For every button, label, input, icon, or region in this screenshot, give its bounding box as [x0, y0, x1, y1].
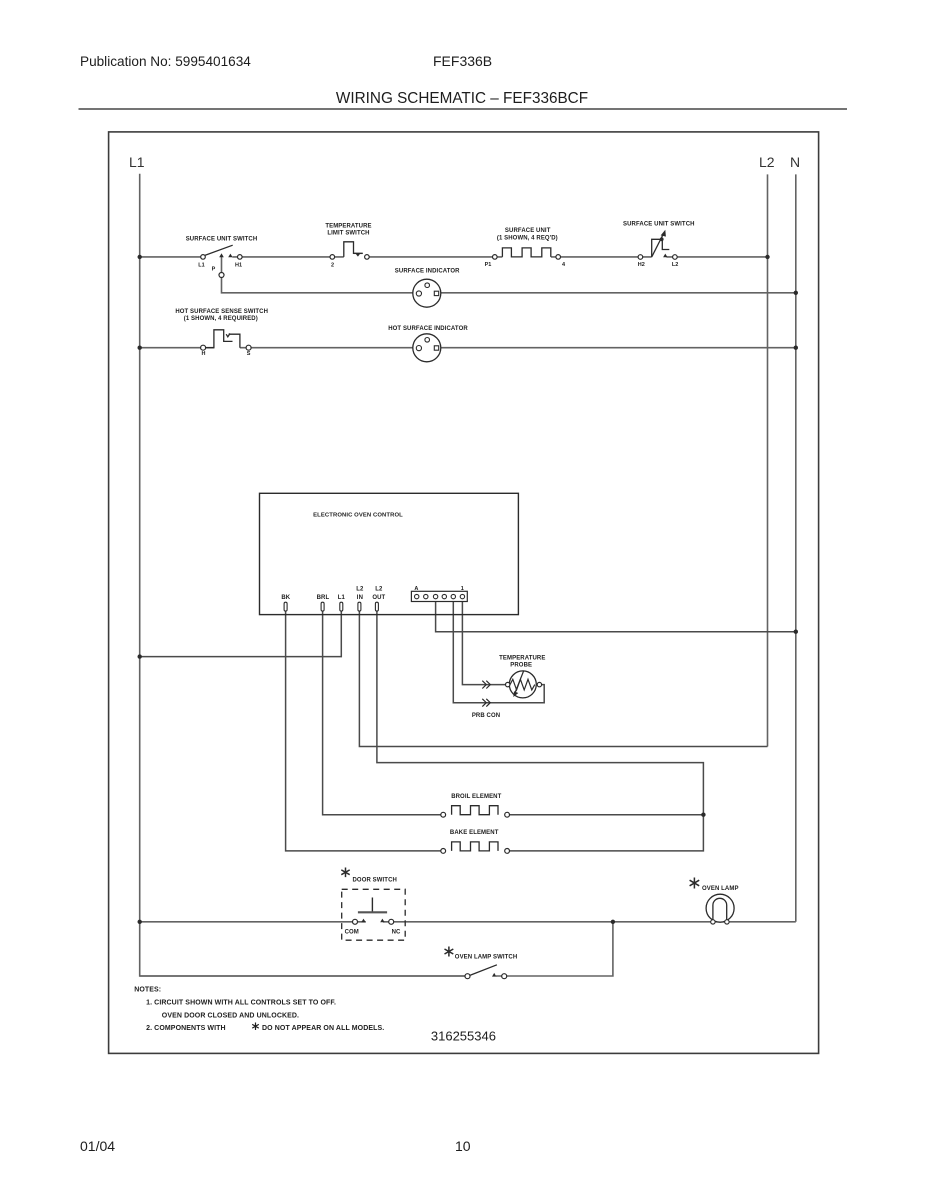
svg-text:L2: L2 [356, 587, 364, 593]
hot surface sense switch contact v [226, 333, 230, 336]
terminal P [219, 273, 224, 278]
row1 wire H1 to limit switch [232, 256, 343, 258]
svg-text:P: P [212, 267, 216, 273]
wire connector pin3 to N rail [436, 599, 796, 632]
svg-text:2: 2 [331, 262, 334, 268]
terminal limit switch right [365, 255, 370, 260]
electronic oven control box U1 [260, 493, 519, 614]
EOC terminal slot L1 [340, 602, 343, 611]
wire connector pin6 to probe [462, 599, 507, 685]
terminal NC [389, 919, 394, 924]
junction L1 EOC [138, 654, 142, 658]
L2 rail vertical wire [767, 174, 769, 746]
terminal H1 [238, 255, 243, 260]
wire EOC L2 OUT to elements [377, 611, 704, 815]
terminal L1 [201, 255, 206, 260]
EOC connector J1 [411, 591, 467, 601]
broil element BE1 [452, 806, 498, 815]
svg-text:BK: BK [281, 595, 290, 601]
svg-text:HOT SURFACE SENSE SWITCH: HOT SURFACE SENSE SWITCH [175, 309, 268, 315]
terminal probe right [537, 682, 541, 686]
chevron SW2 [663, 254, 667, 258]
junction N indicator [794, 291, 798, 295]
terminal P1 [493, 255, 498, 260]
connector pin 3 [433, 594, 437, 598]
chevron door COM [361, 919, 365, 923]
svg-text:DO NOT APPEAR ON ALL MODELS.: DO NOT APPEAR ON ALL MODELS. [262, 1025, 384, 1032]
door switch dashed box [342, 889, 406, 940]
connector pin 2 [424, 594, 428, 598]
temperature probe arrow [515, 671, 524, 693]
svg-text:BAKE ELEMENT: BAKE ELEMENT [450, 830, 499, 836]
svg-text:OUT: OUT [372, 595, 385, 601]
terminal probe left [506, 682, 510, 686]
svg-text:L2: L2 [672, 262, 678, 268]
EOC terminal slot L2 IN [358, 602, 361, 611]
surface unit switch SW1 blade [205, 245, 233, 255]
svg-text:NOTES:: NOTES: [134, 987, 161, 994]
terminal bake right [505, 849, 510, 854]
svg-text:BRL: BRL [317, 595, 330, 601]
header rule [79, 108, 848, 110]
row1 wire switch2 to L2 rail [667, 256, 768, 258]
svg-text:L2: L2 [759, 154, 775, 170]
door switch rail wire left [140, 921, 366, 923]
wire broil element to junction [507, 814, 703, 816]
oven lamp filament loop [713, 898, 727, 922]
terminal L2 [673, 255, 678, 260]
terminal H [201, 345, 206, 350]
svg-text:L1: L1 [198, 263, 204, 269]
chevron P [219, 253, 224, 257]
svg-text:H2: H2 [638, 262, 645, 268]
junction L2 row1 [765, 255, 769, 259]
wire connector pin5 to probe return [453, 599, 544, 703]
wire EOC L1 to L1 rail [140, 611, 342, 657]
oven lamp DS3 body [706, 894, 734, 922]
junction L1 row1 [138, 255, 142, 259]
svg-text:OVEN LAMP SWITCH: OVEN LAMP SWITCH [455, 955, 518, 961]
svg-text:SURFACE INDICATOR: SURFACE INDICATOR [395, 269, 460, 275]
temperature limit switch bump [344, 242, 363, 257]
surface indicator branch wire [222, 257, 796, 293]
svg-text:ELECTRONIC OVEN CONTROL: ELECTRONIC OVEN CONTROL [313, 513, 403, 519]
asterisk oven lamp [690, 878, 700, 889]
connector pin 1 [415, 594, 419, 598]
temperature probe resistor zigzag [510, 679, 535, 690]
svg-text:10: 10 [455, 1138, 471, 1154]
svg-text:COM: COM [345, 930, 359, 936]
oven lamp switch branch wire right [496, 922, 613, 976]
svg-text:L1: L1 [338, 595, 346, 601]
svg-text:01/04: 01/04 [80, 1138, 115, 1154]
connector pin 6 [460, 594, 464, 598]
chevron lamp switch [492, 973, 496, 977]
svg-text:PROBE: PROBE [510, 663, 532, 669]
surface unit switch SW2 pivot dot [660, 237, 664, 241]
surface unit switch SW2 blade [652, 234, 664, 258]
svg-text:L1: L1 [129, 154, 145, 170]
svg-text:2. COMPONENTS WITH: 2. COMPONENTS WITH [146, 1025, 226, 1032]
surface unit switch SW2 frame [652, 239, 670, 257]
junction L1 door rail [138, 920, 142, 924]
EOC terminal slot BRL [321, 602, 324, 611]
wire bake element to junction [507, 815, 703, 851]
junction N pin3 [794, 630, 798, 634]
terminal H2 [638, 255, 643, 260]
svg-text:NC: NC [392, 930, 401, 936]
terminal circles [201, 255, 678, 979]
hot surface rail wire right [240, 347, 796, 349]
svg-text:HOT SURFACE INDICATOR: HOT SURFACE INDICATOR [388, 326, 468, 332]
svg-text:LIMIT SWITCH: LIMIT SWITCH [327, 231, 369, 237]
EOC terminal slot BK [284, 602, 287, 611]
terminal bake left [441, 849, 446, 854]
svg-text:A: A [414, 586, 418, 592]
svg-text:BROIL ELEMENT: BROIL ELEMENT [451, 794, 501, 800]
oven lamp terminal left [711, 920, 715, 924]
chevron contacts [219, 253, 667, 976]
wire EOC BRL to broil element [323, 611, 444, 815]
wire EOC L2 IN to L2 rail [359, 611, 767, 747]
hot surface sense switch bump [205, 330, 232, 348]
schematic border frame [109, 132, 819, 1054]
terminal lamp switch right [502, 974, 507, 979]
L1 rail vertical wire [140, 174, 467, 976]
probe connector chevron top [482, 681, 490, 689]
surface unit switch SW2 blade arrowhead [661, 230, 666, 237]
svg-text:SURFACE UNIT: SURFACE UNIT [505, 228, 551, 234]
temperature probe RT1 body [509, 671, 536, 698]
row1 wire surface unit to switch2 [551, 256, 652, 258]
asterisk note2 [252, 1023, 259, 1031]
terminal broil left [441, 812, 446, 817]
bake element BK1 [452, 842, 498, 851]
N rail vertical wire [795, 174, 797, 921]
junction lamp switch [611, 920, 615, 924]
door switch plunger [371, 898, 373, 913]
oven lamp terminal right [725, 920, 729, 924]
svg-text:1: 1 [461, 586, 464, 592]
door switch rail wire right [383, 921, 796, 923]
asterisk oven lamp switch [445, 947, 454, 957]
terminal 2 [330, 255, 335, 260]
terminal COM [353, 919, 358, 924]
junction elements [701, 813, 705, 817]
temperature limit switch contact arrow [356, 254, 360, 257]
svg-text:OVEN DOOR CLOSED AND UNLOCKED.: OVEN DOOR CLOSED AND UNLOCKED. [162, 1013, 299, 1020]
svg-text:TEMPERATURE: TEMPERATURE [499, 656, 545, 662]
hot surface indicator lamp DS2 [413, 334, 441, 362]
svg-text:P1: P1 [485, 262, 492, 268]
hot surface sense switch fixed arm [229, 334, 240, 348]
oven lamp switch blade [470, 965, 497, 976]
terminal broil right [505, 812, 510, 817]
svg-text:H: H [202, 351, 206, 357]
terminal 4 [556, 255, 561, 260]
chevron door NC [380, 919, 384, 923]
row1 wire limit switch to surface unit [365, 256, 503, 258]
probe connector chevron bottom [482, 699, 490, 707]
svg-text:L2: L2 [375, 587, 383, 593]
svg-text:316255346: 316255346 [431, 1029, 496, 1044]
asterisk door switch [341, 868, 349, 878]
surface indicator lamp DS1 [413, 279, 441, 307]
temperature limit switch contact bar [354, 252, 363, 254]
svg-text:N: N [790, 154, 800, 170]
wire EOC BK to bake element [286, 611, 444, 851]
svg-text:OVEN LAMP: OVEN LAMP [702, 886, 739, 892]
svg-text:(1 SHOWN, 4 REQUIRED): (1 SHOWN, 4 REQUIRED) [184, 316, 258, 322]
svg-text:H1: H1 [235, 263, 242, 269]
hot surface rail wire left [140, 347, 214, 349]
connector pin 5 [451, 594, 455, 598]
terminal S [246, 345, 251, 350]
chevron H1 [228, 254, 232, 258]
svg-text:1. CIRCUIT SHOWN WITH ALL CON: 1. CIRCUIT SHOWN WITH ALL CONTROLS SET T… [146, 1000, 336, 1007]
svg-text:SURFACE UNIT SWITCH: SURFACE UNIT SWITCH [186, 237, 258, 243]
terminal lamp switch left [465, 974, 470, 979]
junction N hot surface [794, 346, 798, 350]
row1 wire L1 to switch [140, 256, 201, 258]
connector pin 4 [442, 594, 446, 598]
svg-text:WIRING SCHEMATIC – FEF336BCF: WIRING SCHEMATIC – FEF336BCF [336, 90, 588, 107]
svg-text:Publication No: 5995401634: Publication No: 5995401634 [80, 54, 251, 69]
junction L1 hot surface [138, 346, 142, 350]
surface unit element SU1 [502, 248, 550, 257]
svg-text:(1 SHOWN, 4 REQ'D): (1 SHOWN, 4 REQ'D) [497, 236, 558, 242]
svg-text:FEF336B: FEF336B [433, 53, 492, 69]
svg-text:TEMPERATURE: TEMPERATURE [325, 224, 371, 230]
svg-text:S: S [247, 351, 251, 357]
EOC terminal slot L2 OUT [375, 602, 378, 611]
svg-text:PRB CON: PRB CON [472, 713, 500, 719]
svg-text:SURFACE UNIT SWITCH: SURFACE UNIT SWITCH [623, 221, 695, 227]
oven lamp switch branch wire left [140, 975, 468, 977]
svg-text:DOOR SWITCH: DOOR SWITCH [353, 878, 397, 884]
svg-text:IN: IN [357, 595, 363, 601]
